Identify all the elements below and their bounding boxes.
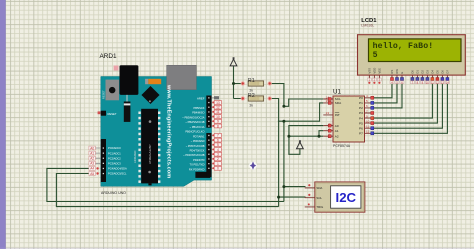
svg-text:A5: A5 [90,172,94,176]
svg-text:3k: 3k [249,89,253,93]
right digital pin labels [182,106,205,171]
wire H1 to U1 pin15 SDA [278,103,323,121]
svg-text:11: 11 [431,80,434,84]
LCD pin 4-14 number boxes [390,81,449,84]
junction A1 bracket [318,135,321,138]
junction dots [232,82,321,199]
svg-text:P5: P5 [359,121,363,125]
svg-text:P4: P4 [359,116,363,120]
svg-text:RW: RW [395,69,399,74]
wire U1 P5 to LCD D5 [372,80,437,123]
svg-text:R2: R2 [248,93,255,99]
junction SDA vertical top [282,120,285,123]
svg-text:~ PB1/OC1A: ~ PB1/OC1A [190,125,205,129]
svg-text:A3: A3 [90,162,94,166]
right pin stubs and number boxes [212,96,222,170]
wire VCC stem to R1/R2 [234,66,243,99]
svg-text:D0: D0 [410,70,414,74]
wire R1 right to SDA vertical [270,84,284,107]
svg-text:3k: 3k [249,104,253,108]
svg-text:P2: P2 [359,106,363,110]
junction I2C SCL [277,196,280,199]
left pin header [101,139,106,182]
svg-text:3: 3 [217,153,219,157]
svg-text:PB5/SCK: PB5/SCK [194,106,205,110]
svg-text:PD4/T0/XCK: PD4/T0/XCK [190,149,205,153]
LCD body [358,35,466,75]
svg-text:6: 6 [217,138,219,142]
svg-text:~ PB2/SS/OC1B: ~ PB2/SS/OC1B [185,120,204,124]
svg-text:9: 9 [217,120,219,124]
svg-text:10: 10 [216,115,220,119]
diamond chip [141,86,159,104]
LCD pin names (vertical) [367,68,449,74]
svg-text:12: 12 [436,80,439,84]
svg-text:ARDUINO: ARDUINO [133,151,137,163]
U1 pin names [335,97,342,138]
svg-text:TRIG: TRIG [316,205,324,209]
svg-text:I2C: I2C [336,190,357,205]
svg-text:E: E [400,72,404,74]
wire to I2C SDA [284,186,306,188]
wire R2 right / SCL vertical [270,99,279,207]
power symbol near U1 A pins [297,140,304,149]
left analog pin labels [108,146,127,176]
svg-text:ARD1: ARD1 [100,53,117,60]
svg-text:P7: P7 [359,132,363,136]
svg-text:D1: D1 [415,70,419,74]
junction I2C SDA [282,185,285,188]
wire U1 A2 [289,135,323,137]
svg-text:14: 14 [446,80,449,84]
sheet left border [0,0,5,249]
svg-text:ARDUINO UNO: ARDUINO UNO [101,191,126,195]
LCD pin stubs [369,75,447,78]
svg-text:4: 4 [217,148,219,152]
svg-text:1: 1 [217,162,219,166]
U1 pin numbers [326,95,331,136]
svg-text:13: 13 [441,80,444,84]
svg-text:0: 0 [217,167,219,171]
svg-text:SDA: SDA [335,101,342,105]
U1 indicator squares [328,96,374,137]
junction at VCC/R1 [232,82,235,85]
svg-text:PC5/ADC5/SCL: PC5/ADC5/SCL [108,172,127,176]
svg-text:13: 13 [326,111,330,115]
svg-text:A1: A1 [90,151,94,155]
wire SDA vertical [283,121,285,201]
svg-text:11: 11 [366,125,369,129]
svg-text:LM016L: LM016L [361,24,374,28]
svg-text:10: 10 [366,119,370,123]
right pin header bottom [206,133,211,177]
svg-text:P6: P6 [359,126,363,130]
svg-text:A2: A2 [90,157,94,161]
svg-text:SDA: SDA [316,186,322,190]
svg-text:5: 5 [373,51,378,60]
LCD screen [369,39,462,62]
svg-text:PC1/ADC1: PC1/ADC1 [108,151,121,155]
U1 right pin stubs [365,98,373,134]
junction R1 vertical bottom [282,105,285,108]
svg-text:2: 2 [217,157,219,161]
svg-text:~ PB3/MOSI/OC2A: ~ PB3/MOSI/OC2A [182,115,205,119]
wire U1 A0 [289,126,323,137]
reset button [106,80,120,101]
svg-text:D5: D5 [435,70,439,74]
svg-text:7: 7 [217,134,219,138]
svg-text:P0: P0 [359,96,363,100]
right pin header top [206,96,211,128]
svg-text:D2: D2 [420,70,424,74]
IC U1 PCF8574A I/O expander [323,89,374,148]
svg-text:D6: D6 [440,70,444,74]
svg-text:PCF8574A: PCF8574A [333,144,351,148]
left A0-A5 pin boxes [89,146,101,176]
diode D1 [126,95,128,102]
svg-text:12: 12 [366,130,370,134]
wire U1 P4 to LCD D4 [372,80,432,118]
svg-text:PB0/ICP1/CLKO: PB0/ICP1/CLKO [185,130,204,134]
wire U1 A1 [319,131,323,137]
svg-text:VEE: VEE [377,68,381,74]
svg-text:PC4/ADC4/SDA: PC4/ADC4/SDA [108,167,127,171]
svg-text:TX PD1/TXD: TX PD1/TXD [190,163,205,167]
svg-text:D4: D4 [430,70,434,74]
svg-text:A2: A2 [335,134,339,138]
wire A0A1A2 to power [289,136,300,154]
pink marker [114,66,119,71]
power symbol near resistors [230,57,237,66]
svg-text:www.TheEngineeringProjects.com: www.TheEngineeringProjects.com [165,84,171,178]
svg-text:P1: P1 [359,101,363,105]
ATmega328 DIP chip [138,112,160,183]
U1 left pin stubs [323,99,333,136]
wire to I2C SCL [279,196,306,198]
wire U1 P0 to LCD RS [372,80,392,98]
fuse (orange) [145,79,148,84]
svg-text:5: 5 [217,143,219,147]
svg-text:13: 13 [216,101,220,105]
svg-text:hello, FaBo!: hello, FaBo! [373,41,434,51]
svg-text:~ PD5/T1/OC0B: ~ PD5/T1/OC0B [186,144,205,148]
svg-text:A1: A1 [335,129,339,133]
svg-text:D7: D7 [445,70,449,74]
svg-text:U1: U1 [333,89,341,96]
svg-text:RESET: RESET [108,112,117,116]
svg-text:PB4/MISO: PB4/MISO [192,111,204,115]
svg-text:~ PD3/INT1/OC2B: ~ PD3/INT1/OC2B [183,153,205,157]
reset pin [101,111,106,116]
Arduino ARD1 [89,53,222,195]
svg-text:A4: A4 [90,167,94,171]
board body [101,77,212,187]
origin marker star [249,161,257,169]
svg-text:PC0/ADC0: PC0/ADC0 [108,146,121,150]
svg-text:R1: R1 [248,78,255,84]
svg-text:ATMEGA328P: ATMEGA328P [148,145,152,164]
wire A5 to SCL net [56,174,278,207]
svg-text:PC2/ADC2: PC2/ADC2 [108,156,121,160]
svg-text:PC3/ADC3: PC3/ADC3 [108,162,121,166]
LCD LCD1 LM016L [358,18,466,84]
svg-text:VSS: VSS [367,68,371,74]
I2C body [315,182,365,212]
svg-text:8: 8 [217,124,219,128]
power jack [120,65,139,95]
svg-text:10: 10 [426,80,429,84]
I2C white screen [331,186,361,208]
I2C pin stubs [305,188,315,207]
svg-text:RS: RS [390,70,394,74]
junction A0 bracket [287,135,290,138]
USB connector [167,65,197,89]
I2C pin names [316,186,324,209]
svg-text:RX PD0/RXD: RX PD0/RXD [189,167,205,171]
wire U1 P6 to LCD D6 [372,80,442,128]
svg-text:PD7/AIN1: PD7/AIN1 [193,134,205,138]
svg-text:SCL: SCL [316,196,322,200]
svg-text:A0: A0 [90,146,94,150]
svg-text:VDD: VDD [372,68,376,74]
wire jog to U1 pin14 SCL [284,99,323,106]
svg-text:12: 12 [216,106,220,110]
svg-text:D3: D3 [425,70,429,74]
U1 body [333,96,365,142]
ICSP header block [195,172,210,178]
LCD pin 4-14 indicator squares [391,78,449,81]
wire A4 to SDA net [47,168,284,201]
svg-text:A0: A0 [335,124,339,128]
svg-text:P3: P3 [359,111,363,115]
svg-text:INT: INT [335,113,340,117]
I2C debugger [305,182,365,212]
svg-text:11: 11 [216,110,220,114]
wire U1 P2 to LCD E [372,80,402,108]
wire U1 P1 to LCD RW [372,80,397,103]
svg-text:RESET: RESET [101,90,105,99]
resistor R2 [241,93,272,107]
svg-text:AREF: AREF [197,96,205,100]
svg-text:PD2/INT0: PD2/INT0 [193,158,205,162]
resistor R1 [241,78,272,92]
wire U1 P7 to LCD D7 [372,80,447,133]
LCD pin 1-3 number boxes and terminal dots [367,78,381,81]
svg-text:~ PD6/AIN0: ~ PD6/AIN0 [191,139,205,143]
I2C pin terminal dots [308,184,310,186]
